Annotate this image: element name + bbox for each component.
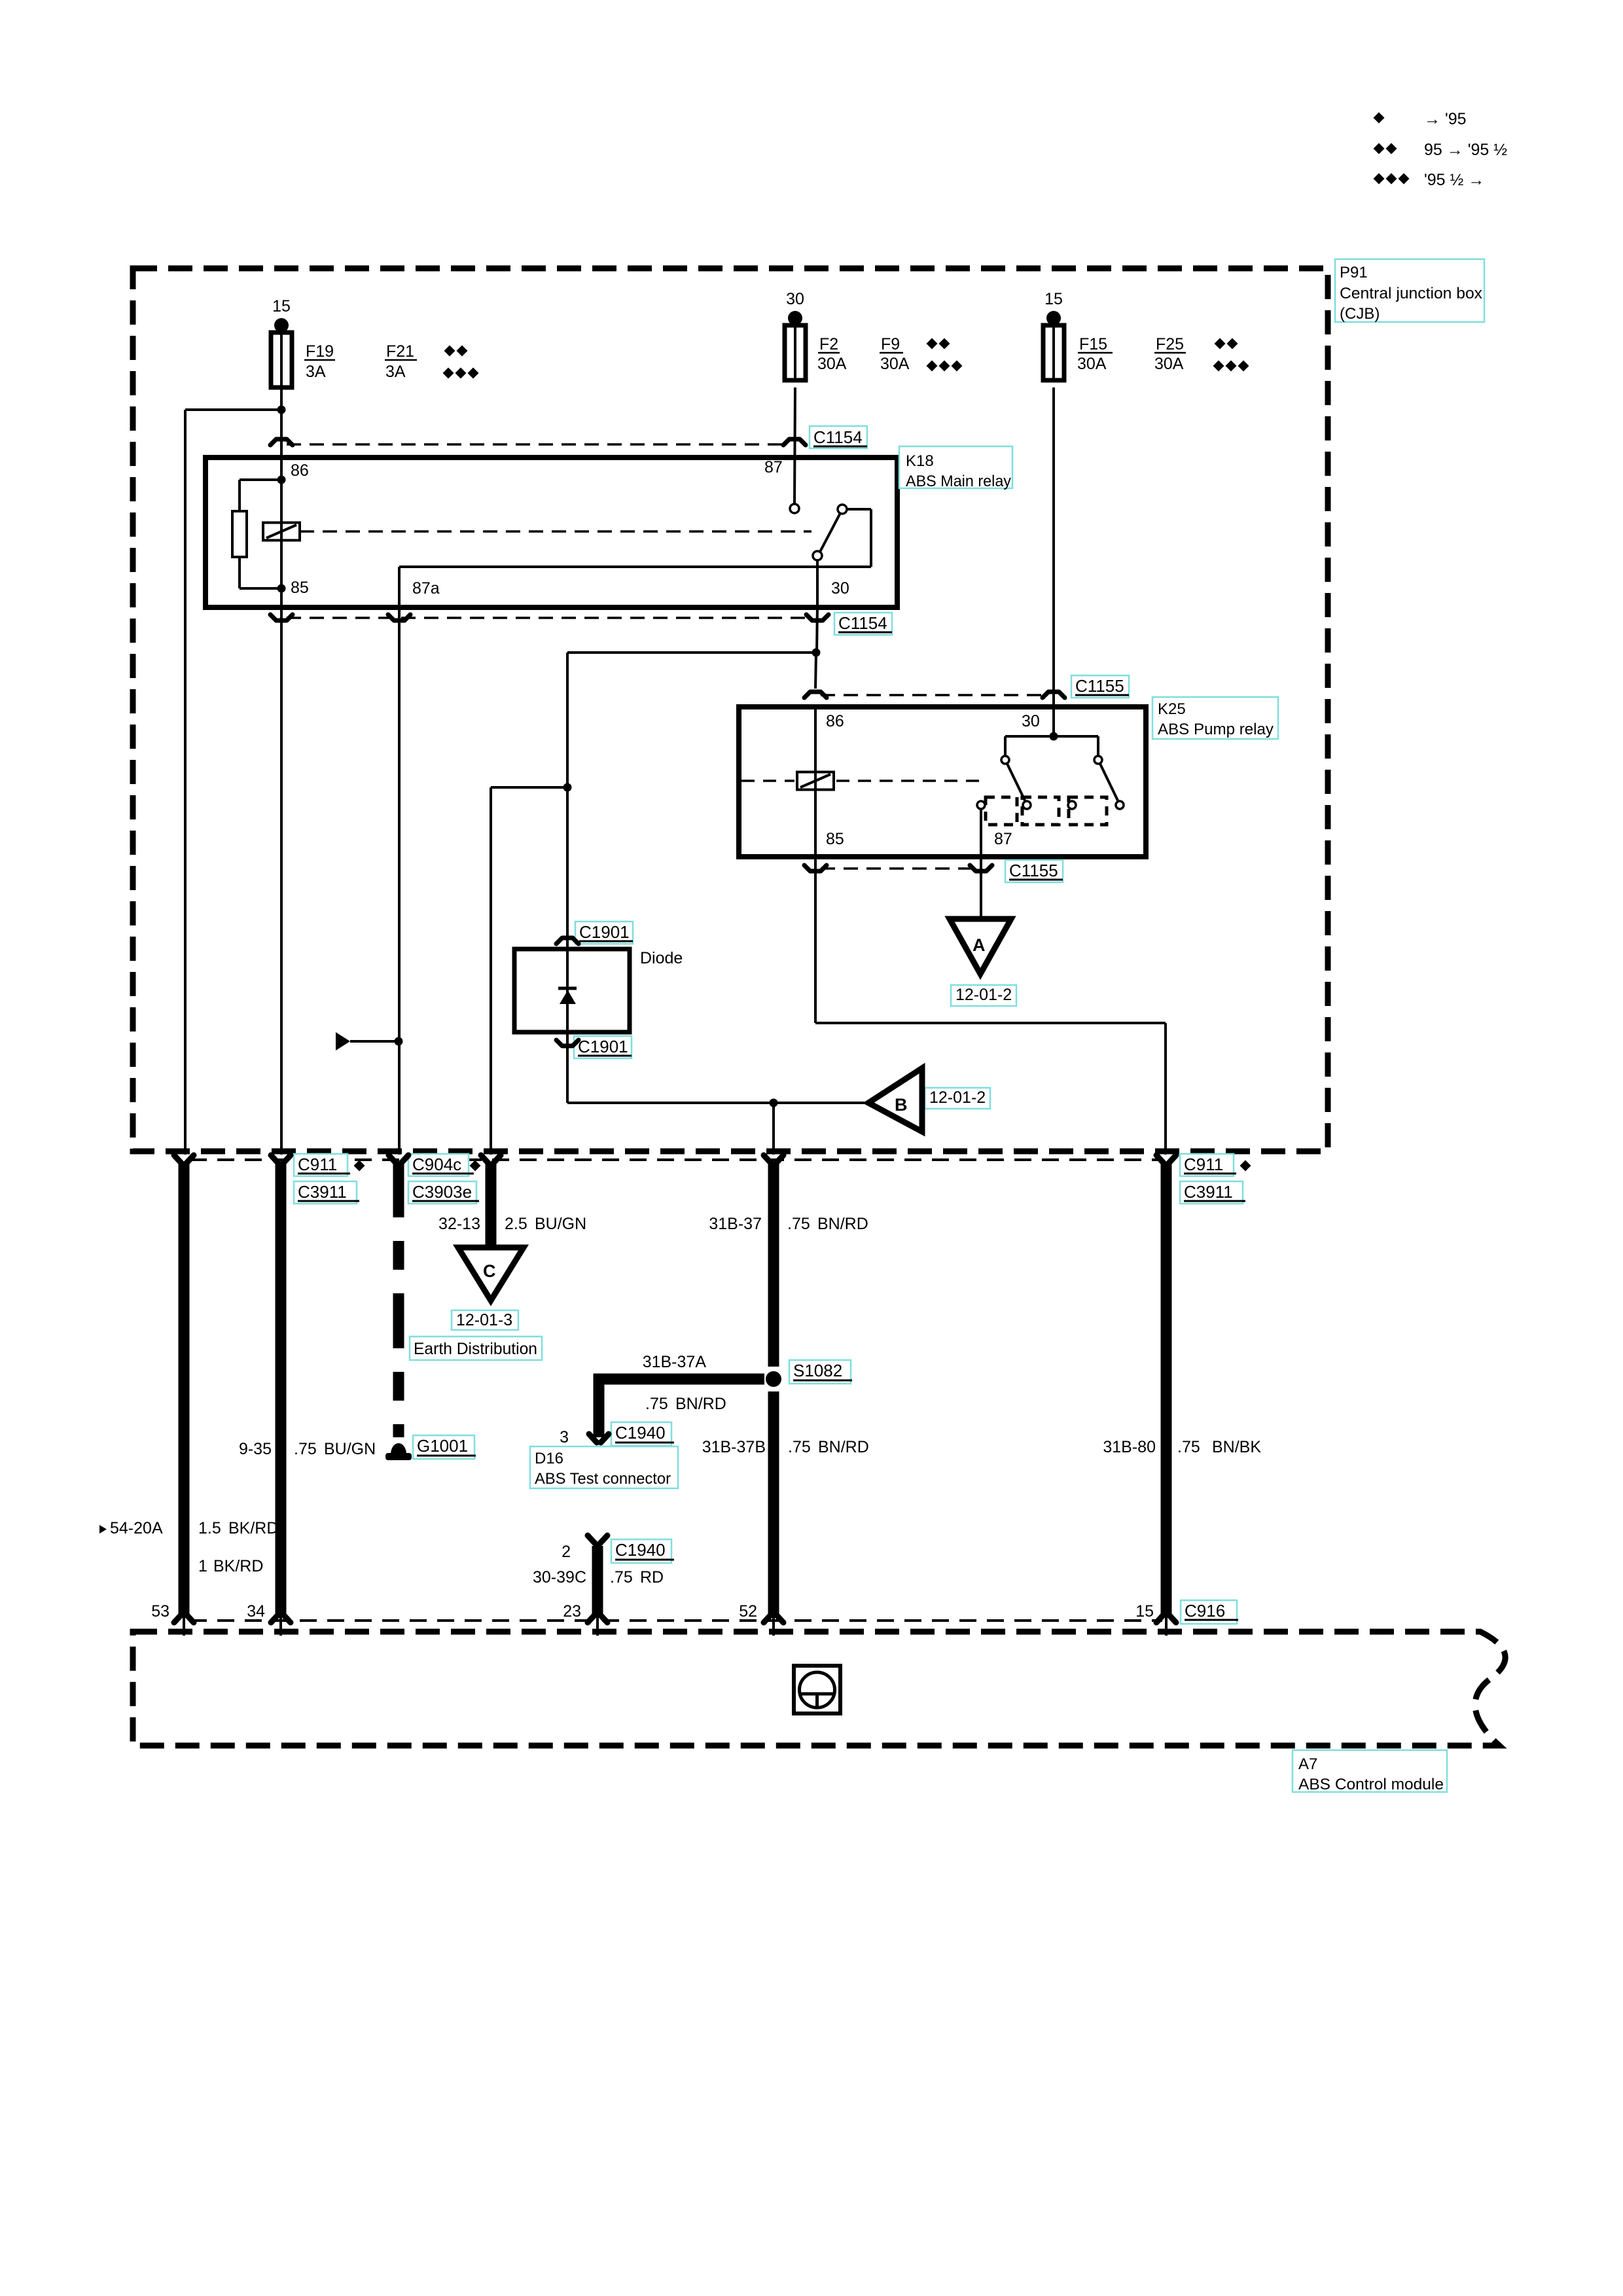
svg-text:Diode: Diode	[640, 949, 683, 967]
svg-text:C3911: C3911	[298, 1182, 347, 1202]
svg-text:C1155: C1155	[1009, 861, 1058, 880]
svg-text:C1940: C1940	[615, 1540, 666, 1560]
svg-text:12-01-2: 12-01-2	[955, 986, 1012, 1004]
svg-text:BU/GN: BU/GN	[535, 1215, 586, 1233]
svg-text:31B-37: 31B-37	[709, 1215, 762, 1233]
svg-text:C1901: C1901	[579, 922, 630, 942]
svg-text:F19: F19	[306, 342, 334, 361]
svg-text:1.5: 1.5	[198, 1519, 221, 1537]
svg-text:54-20A: 54-20A	[110, 1519, 163, 1537]
svg-text:1: 1	[198, 1557, 207, 1575]
svg-text:2: 2	[562, 1543, 571, 1561]
svg-text:30A: 30A	[1077, 355, 1107, 373]
svg-text:Earth Distribution: Earth Distribution	[414, 1340, 537, 1358]
svg-text:BK/RD: BK/RD	[213, 1557, 263, 1575]
svg-text:(CJB): (CJB)	[1340, 305, 1380, 323]
svg-text:31B-80: 31B-80	[1103, 1438, 1156, 1456]
svg-text:C911: C911	[1184, 1155, 1223, 1174]
svg-text:9-35: 9-35	[239, 1440, 272, 1458]
svg-text:30-39C: 30-39C	[533, 1568, 586, 1587]
svg-text:ABS Test connector: ABS Test connector	[535, 1470, 671, 1488]
svg-text:86: 86	[826, 712, 844, 730]
svg-text:3A: 3A	[385, 363, 406, 381]
svg-text:23: 23	[563, 1602, 581, 1621]
svg-text:BK/RD: BK/RD	[228, 1519, 278, 1537]
svg-text:3: 3	[560, 1428, 569, 1446]
svg-text:31B-37A: 31B-37A	[643, 1353, 707, 1371]
svg-text:2.5: 2.5	[505, 1215, 527, 1233]
svg-text:31B-37B: 31B-37B	[702, 1438, 766, 1456]
svg-text:F9: F9	[881, 335, 900, 353]
svg-text:F21: F21	[386, 342, 414, 361]
svg-text:.75: .75	[788, 1438, 811, 1456]
svg-text:85: 85	[826, 830, 844, 848]
svg-text:53: 53	[151, 1602, 169, 1621]
svg-text:15: 15	[272, 297, 291, 315]
svg-text:30A: 30A	[817, 355, 847, 373]
svg-text:34: 34	[247, 1602, 265, 1621]
svg-text:.75: .75	[610, 1568, 633, 1587]
svg-text:30: 30	[831, 579, 849, 598]
svg-text:87: 87	[994, 830, 1012, 848]
svg-text:.75: .75	[645, 1395, 668, 1413]
svg-text:BN/BK: BN/BK	[1212, 1438, 1261, 1456]
svg-text:C3911: C3911	[1184, 1182, 1233, 1202]
svg-text:C1154: C1154	[813, 427, 863, 447]
svg-text:RD: RD	[640, 1568, 664, 1587]
svg-text:BN/RD: BN/RD	[818, 1438, 869, 1456]
svg-text:A: A	[972, 935, 986, 955]
svg-text:85: 85	[291, 579, 309, 597]
svg-text:ABS Main relay: ABS Main relay	[906, 473, 1011, 490]
svg-text:F15: F15	[1079, 335, 1107, 353]
svg-text:S1082: S1082	[793, 1361, 842, 1380]
svg-text:'95 ½ →: '95 ½ →	[1424, 171, 1484, 189]
svg-text:F2: F2	[819, 335, 838, 353]
svg-text:BN/RD: BN/RD	[817, 1215, 868, 1233]
svg-text:→ '95: → '95	[1424, 110, 1467, 128]
svg-text:G1001: G1001	[417, 1436, 468, 1456]
svg-text:12-01-3: 12-01-3	[456, 1311, 512, 1329]
svg-text:12-01-2: 12-01-2	[929, 1088, 986, 1107]
svg-text:F25: F25	[1156, 335, 1184, 353]
svg-text:P91: P91	[1340, 264, 1368, 281]
svg-text:C3903e: C3903e	[412, 1182, 472, 1202]
svg-text:ABS Pump relay: ABS Pump relay	[1158, 721, 1274, 738]
svg-text:15: 15	[1044, 290, 1063, 308]
svg-text:K18: K18	[906, 452, 934, 470]
svg-text:BN/RD: BN/RD	[675, 1395, 726, 1413]
svg-text:.75: .75	[294, 1440, 317, 1458]
svg-text:B: B	[895, 1095, 908, 1115]
svg-text:A7: A7	[1298, 1755, 1317, 1773]
svg-text:86: 86	[291, 461, 309, 480]
svg-text:.75: .75	[1177, 1438, 1200, 1456]
svg-text:ABS Control module: ABS Control module	[1298, 1776, 1444, 1793]
svg-text:D16: D16	[535, 1450, 563, 1467]
svg-text:30: 30	[1022, 712, 1040, 730]
svg-text:K25: K25	[1158, 700, 1186, 718]
svg-text:87a: 87a	[412, 579, 440, 598]
svg-text:Central junction box: Central junction box	[1340, 285, 1482, 302]
svg-text:C: C	[483, 1261, 496, 1281]
svg-text:52: 52	[739, 1602, 757, 1621]
svg-text:30A: 30A	[880, 355, 910, 373]
svg-text:30: 30	[786, 290, 804, 308]
svg-text:C904c: C904c	[412, 1155, 461, 1174]
svg-text:32-13: 32-13	[438, 1215, 480, 1233]
svg-text:87: 87	[764, 458, 783, 476]
svg-text:3A: 3A	[306, 363, 326, 381]
svg-text:C1940: C1940	[615, 1423, 666, 1443]
svg-text:C916: C916	[1185, 1601, 1225, 1621]
svg-text:15: 15	[1135, 1602, 1154, 1621]
svg-text:C1155: C1155	[1075, 676, 1124, 696]
svg-text:BU/GN: BU/GN	[324, 1440, 376, 1458]
svg-text:30A: 30A	[1154, 355, 1184, 373]
svg-text:C1901: C1901	[578, 1037, 628, 1056]
svg-text:C1154: C1154	[838, 613, 887, 633]
svg-text:C911: C911	[298, 1155, 337, 1174]
svg-text:.75: .75	[787, 1215, 810, 1233]
svg-text:95 → '95 ½: 95 → '95 ½	[1424, 141, 1507, 159]
